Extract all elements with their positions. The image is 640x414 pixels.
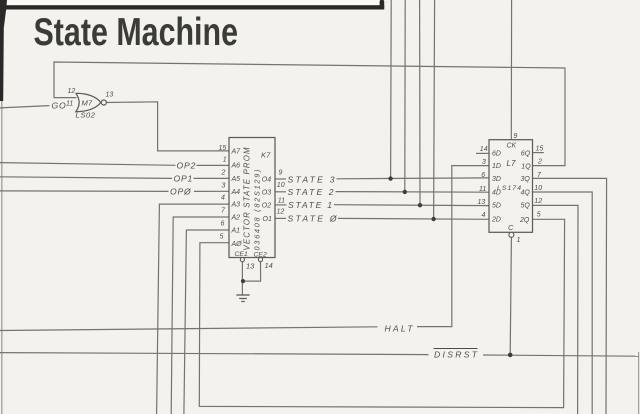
svg-text:5: 5 [537,212,541,219]
svg-text:11: 11 [278,198,285,205]
svg-text:15: 15 [219,145,227,152]
wire STATE 0 [275,217,286,219]
svg-text:4: 4 [221,194,225,201]
svg-text:M7: M7 [82,98,93,107]
svg-text:K7: K7 [261,151,271,160]
wire L7 3Q to bottom edge [533,178,607,414]
wire K7 A1 to bottom edge [184,230,229,414]
svg-text:036408 (82S129): 036408 (82S129) [253,170,262,251]
svg-text:4D: 4D [492,189,501,196]
junction dot STATE 3 feedback [388,176,392,180]
svg-text:A3: A3 [231,202,241,209]
svg-text:1Q: 1Q [521,163,531,170]
junction dot STATE 1 feedback [418,203,422,207]
junction dot CE1/CE2 [241,279,245,283]
svg-text:C: C [508,223,514,232]
svg-text:13: 13 [246,262,255,271]
svg-text:12: 12 [68,88,76,95]
net label DISRST (active low) [434,348,478,350]
svg-text:9: 9 [279,169,283,176]
svg-text:14: 14 [480,146,488,153]
pin stub L7 6D pin 14 [476,152,489,154]
svg-text:A6: A6 [231,163,241,170]
svg-text:5: 5 [220,234,224,241]
wire STATE 3 [275,178,286,180]
ground [236,295,249,302]
svg-text:3D: 3D [492,176,501,183]
wire GO input to M7 pin 11 [0,106,50,108]
wire STATE 3 feedback to top edge [390,0,393,179]
svg-text:1: 1 [223,157,227,164]
svg-text:GO: GO [52,101,67,111]
svg-text:9: 9 [513,133,517,140]
svg-text:O4: O4 [262,177,271,184]
wire L7 clear to DISRST [510,237,511,354]
svg-text:14: 14 [265,261,273,270]
svg-text:STATE Ø: STATE Ø [288,214,338,224]
hex D flip-flop L7 LS174 [489,140,533,233]
wire K7 A3 to bottom edge [157,204,229,414]
svg-text:1: 1 [517,237,521,244]
svg-text:13: 13 [106,92,114,99]
svg-text:O2: O2 [262,202,271,209]
svg-text:2D: 2D [491,217,501,224]
svg-text:15: 15 [536,146,544,153]
junction dot STATE 2 feedback [403,190,407,194]
junction dot clear/DISRST [508,353,513,358]
svg-text:6Q: 6Q [521,151,531,158]
pin stub L7 6Q pin 15 [533,152,544,154]
svg-text:State Machine: State Machine [34,11,239,54]
wire STATE 1 feedback to top edge [419,0,421,205]
svg-text:10: 10 [534,185,542,192]
svg-text:6: 6 [481,172,485,179]
junction dot STATE 0 feedback [431,217,435,221]
svg-text:AØ: AØ [231,241,243,248]
svg-text:11: 11 [66,101,73,108]
svg-text:A7: A7 [231,148,242,155]
active-low bubble K7 CE1 pin 13 [240,258,244,262]
nor gate M7 LS02 [76,93,107,111]
wire STATE 1 [275,204,287,206]
svg-text:CE1: CE1 [235,251,248,258]
wire DISRST [0,353,429,355]
svg-text:2Q: 2Q [519,217,530,224]
svg-text:3Q: 3Q [521,176,531,183]
wire K7 CE2 to CE1 [244,262,261,281]
svg-text:A5: A5 [231,176,241,183]
wire OP0 to K7 A4 [0,190,169,193]
svg-text:OP2: OP2 [177,160,197,170]
svg-text:O1: O1 [263,216,272,223]
svg-text:OPØ: OPØ [170,187,192,197]
svg-text:3: 3 [222,183,226,190]
svg-text:12: 12 [277,209,285,216]
wire OP1 to K7 A5 [0,177,172,179]
svg-text:6: 6 [221,220,225,227]
svg-text:13: 13 [478,199,486,206]
svg-text:CK: CK [507,142,517,149]
svg-text:A1: A1 [231,227,241,234]
svg-text:OP1: OP1 [174,174,194,184]
wire L7 4Q to bottom edge [533,192,593,414]
svg-text:A4: A4 [231,189,241,196]
wire K7 A2 to bottom edge [171,217,229,414]
svg-text:10: 10 [277,182,285,189]
wire CK from top edge to L7 pin 9 [510,0,512,140]
svg-text:6D: 6D [492,151,501,158]
wire M7 output to K7 A7 pin 15 [106,102,229,151]
wire L7 5Q to bottom edge [533,205,579,414]
svg-text:1D: 1D [492,163,501,170]
svg-text:VECTOR STATE PROM: VECTOR STATE PROM [243,147,252,251]
PROM K7 vector state PROM 82S129 [229,138,275,258]
svg-text:5D: 5D [492,203,501,210]
wire K7 CE1 to ground [241,262,243,295]
active-low bubble L7 clear pin 1 [509,232,514,237]
wire STATE 0 feedback to top edge [434,0,435,219]
wire STATE 2 feedback to top edge [404,0,406,192]
svg-text:O3: O3 [262,189,271,196]
wire 1Q feedback to M7 pin 12 [54,62,565,166]
svg-text:L7: L7 [507,159,516,168]
svg-text:2: 2 [537,159,542,166]
wire L7 2Q to K7 A0 [199,219,564,407]
svg-text:LS02: LS02 [76,110,96,119]
svg-text:11: 11 [479,186,486,193]
svg-text:4: 4 [482,212,486,219]
active-low bubble K7 CE2 pin 14 [258,258,262,262]
wire STATE 2 [275,191,286,193]
wire HALT to L7 1D [0,327,378,331]
wire OP2 to K7 A6 [0,163,176,166]
svg-text:5Q: 5Q [521,203,531,210]
svg-text:4Q: 4Q [521,189,531,196]
svg-text:3: 3 [482,159,486,166]
svg-text:12: 12 [534,198,542,205]
svg-text:A2: A2 [231,214,241,221]
svg-text:2: 2 [221,170,226,177]
